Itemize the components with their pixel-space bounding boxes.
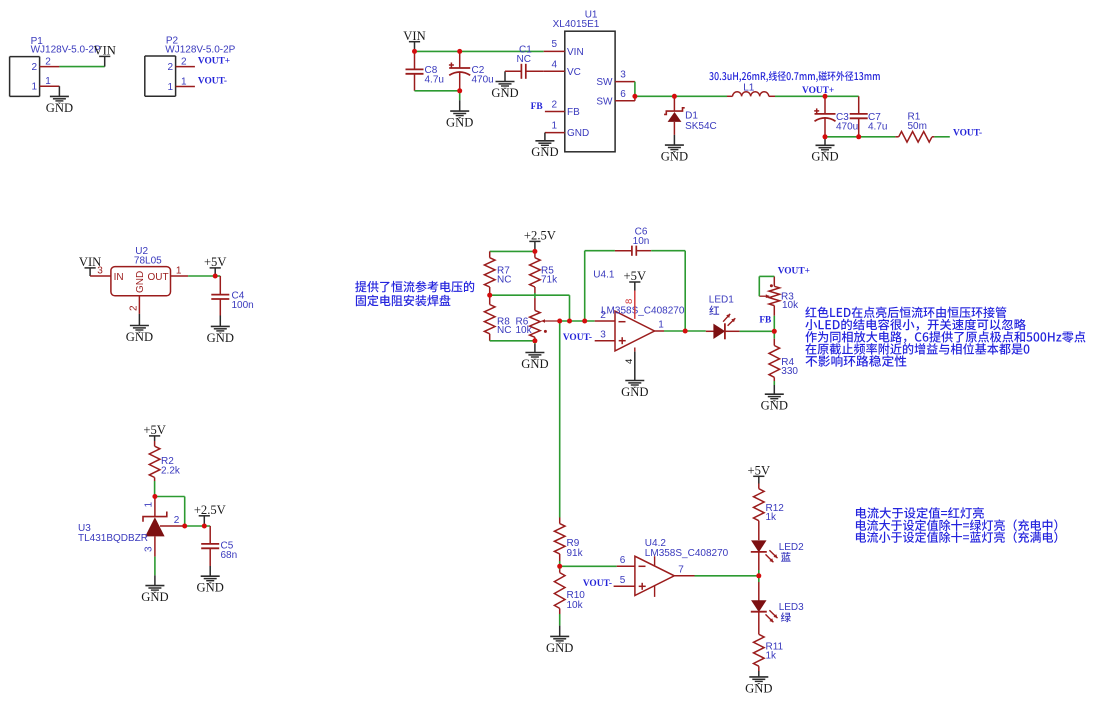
svg-text:GND: GND: [197, 581, 224, 595]
U1 pin 3 SW: [615, 81, 635, 83]
resistor R4: [769, 331, 780, 394]
wire U4.1 output: [664, 330, 706, 332]
svg-text:SW: SW: [596, 96, 613, 107]
wire C3 bottom to ground: [824, 137, 826, 146]
junction R9 R10 node: [557, 564, 562, 569]
svg-text:+2.5V: +2.5V: [524, 229, 556, 243]
svg-text:L1: L1: [743, 83, 755, 94]
annotation pads note: [355, 281, 474, 293]
ground below divider: [521, 353, 548, 371]
U4.2 pin 7 output: [674, 575, 694, 577]
svg-text:TL431BQDBZR: TL431BQDBZR: [78, 533, 148, 544]
svg-text:IN: IN: [114, 272, 124, 283]
svg-text:GND: GND: [761, 399, 788, 413]
ground below R10: [546, 636, 573, 654]
LED LED2: [751, 541, 778, 570]
wire C8 bottom to C2 bottom: [415, 90, 460, 92]
P1 pin 2: [40, 66, 60, 68]
ground below U3: [141, 586, 168, 604]
ground below C4: [207, 326, 234, 344]
wire LED1 to FB node: [740, 330, 775, 332]
wire U3 pin2 to +2.5V: [185, 525, 211, 527]
resistor R5: [530, 251, 541, 293]
connector P1: [10, 57, 40, 97]
svg-text:GND: GND: [811, 150, 838, 164]
svg-text:U4.1: U4.1: [593, 269, 615, 280]
ground at U1 pin 1: [531, 141, 558, 159]
LED LED1: [706, 314, 740, 339]
potentiometer R6: [530, 298, 560, 341]
wire inverting to R9: [559, 321, 561, 518]
svg-text:100n: 100n: [232, 300, 254, 311]
power flag +5V at R12: [748, 464, 771, 484]
svg-text:+5V: +5V: [624, 269, 647, 283]
svg-text:1: 1: [181, 76, 187, 87]
svg-text:XL4015E1: XL4015E1: [553, 19, 600, 30]
power flag +2.5V at divider: [524, 229, 556, 252]
svg-text:VOUT-: VOUT-: [583, 579, 612, 589]
svg-text:4.7u: 4.7u: [868, 121, 887, 132]
svg-text:LED1: LED1: [709, 295, 734, 306]
resistor R2: [149, 441, 160, 481]
junction inverting at mid: [567, 319, 572, 324]
capacitor C5: [201, 526, 219, 576]
resistor R9: [554, 518, 565, 562]
wire R3 top to wiper: [759, 276, 774, 296]
svg-text:GND: GND: [126, 330, 153, 344]
svg-text:LED3: LED3: [779, 602, 804, 613]
svg-text:GND: GND: [135, 271, 146, 293]
svg-text:4: 4: [624, 359, 635, 364]
junction C2 bottom: [457, 88, 462, 93]
op-amp U4.1: [615, 311, 655, 351]
ground below D1: [661, 145, 688, 163]
P2 pin 1: [176, 86, 195, 88]
power flag +5V at R2: [143, 423, 166, 441]
capacitor C6: [615, 246, 651, 256]
op-amp U4.2: [635, 556, 674, 597]
svg-text:3: 3: [144, 546, 155, 552]
svg-text:GND: GND: [567, 128, 589, 139]
wire U3 cathode loop: [155, 497, 185, 527]
junction C3 bottom: [823, 134, 828, 139]
junction divider mid: [487, 293, 492, 298]
svg-text:6: 6: [620, 555, 626, 566]
wire P1 pin1 to ground: [58, 86, 60, 96]
ground at P1 pin1: [46, 96, 73, 114]
U1 pin 6 SW: [615, 96, 635, 101]
wire L1 to VOUT+ node: [775, 95, 825, 97]
svg-text:VC: VC: [567, 67, 581, 78]
capacitor C1: [505, 64, 544, 79]
annotation LED meaning note: [856, 507, 984, 519]
junction divider bottom: [532, 338, 537, 343]
svg-text:2: 2: [600, 310, 606, 321]
svg-text:GND: GND: [531, 145, 558, 159]
svg-text:2: 2: [174, 515, 180, 526]
svg-text:GND: GND: [46, 101, 73, 115]
wire +5V to C4: [215, 275, 220, 277]
power flag +2.5V at U3: [194, 503, 226, 526]
svg-text:VIN: VIN: [94, 44, 116, 58]
junction VIN rail at C8: [412, 49, 417, 54]
resistor R10: [554, 570, 565, 637]
svg-text:2: 2: [181, 56, 187, 67]
svg-text:1: 1: [658, 320, 664, 331]
svg-text:NC: NC: [497, 325, 511, 336]
svg-text:7: 7: [678, 564, 684, 575]
junction +2.5V divider: [532, 249, 537, 254]
svg-text:VOUT-: VOUT-: [953, 129, 982, 139]
junction inverting at C6: [582, 319, 587, 324]
svg-text:GND: GND: [446, 116, 473, 130]
svg-text:1k: 1k: [766, 512, 778, 523]
annotation current-loop note: [805, 307, 1006, 319]
svg-text:VOUT+: VOUT+: [802, 86, 834, 96]
svg-text:+5V: +5V: [143, 423, 166, 437]
svg-text:LM358S_C408270: LM358S_C408270: [645, 548, 729, 559]
junction R2 U3 node: [152, 494, 157, 499]
resistor R1: [895, 132, 934, 143]
svg-text:3: 3: [620, 70, 626, 81]
wire U4.2 output to LEDs: [695, 575, 759, 577]
wire U2 out to +5V: [188, 275, 215, 277]
power flag VIN at P1: [94, 44, 116, 67]
svg-text:1: 1: [176, 265, 182, 276]
svg-text:NC: NC: [517, 54, 531, 65]
junction U3 pin2: [182, 524, 187, 529]
svg-text:LED2: LED2: [779, 542, 804, 553]
wire VOUT+ node to C7: [825, 95, 859, 97]
svg-text:VOUT+: VOUT+: [778, 266, 810, 276]
capacitor C4: [211, 276, 229, 326]
svg-text:10k: 10k: [782, 300, 799, 311]
wire R9 node to U4.2: [560, 565, 617, 567]
ground below R11: [745, 677, 772, 695]
wire SW3 down to SW node: [634, 82, 636, 97]
svg-text:VOUT+: VOUT+: [198, 56, 230, 66]
junction inverting at R9: [557, 319, 562, 324]
power flag VIN at U2: [79, 255, 101, 276]
wire mid to inverting node: [569, 295, 571, 321]
svg-text:+5V: +5V: [748, 464, 771, 478]
U1 pin 1 GND: [545, 133, 565, 141]
junction U4.1 output: [683, 329, 688, 334]
wire inverting node: [560, 320, 595, 322]
wire R3 bottom to FB: [773, 316, 775, 332]
svg-text:FB: FB: [531, 102, 543, 112]
svg-text:1k: 1k: [766, 651, 778, 662]
svg-text:OUT: OUT: [148, 272, 169, 283]
svg-text:330: 330: [781, 366, 798, 377]
svg-text:WJ128V-5.0-2P: WJ128V-5.0-2P: [31, 45, 101, 56]
svg-text:NC: NC: [497, 275, 511, 286]
IC U1 body: [565, 31, 615, 152]
regulator U2 body: [111, 267, 171, 296]
svg-text:3: 3: [600, 330, 606, 341]
wire R2 to U3: [154, 481, 156, 497]
junction +2.5V at C5: [202, 524, 207, 529]
svg-text:2: 2: [31, 62, 37, 73]
svg-text:SW: SW: [596, 77, 613, 88]
label LED2 color blue: [781, 552, 791, 562]
svg-text:5: 5: [620, 575, 626, 586]
svg-text:470u: 470u: [836, 121, 858, 132]
U1 pin 2 FB: [545, 111, 565, 113]
svg-text:1: 1: [552, 121, 558, 132]
svg-text:6: 6: [620, 89, 626, 100]
U2 pin 2 GND: [138, 296, 140, 326]
svg-text:10k: 10k: [516, 325, 533, 336]
svg-text:10n: 10n: [633, 236, 650, 247]
svg-text:8: 8: [624, 299, 635, 304]
U4.1 pin 8 power: [634, 291, 636, 319]
svg-text:10k: 10k: [567, 600, 584, 611]
wire divider bottom: [490, 340, 535, 342]
wire C2 bottom to ground: [459, 91, 461, 111]
wire C6 right leg: [651, 251, 685, 331]
svg-text:VIN: VIN: [567, 47, 584, 58]
P2 pin 2: [176, 66, 195, 68]
svg-text:91k: 91k: [567, 548, 584, 559]
power flag +5V at U4.1: [624, 269, 647, 290]
svg-text:2: 2: [167, 62, 173, 73]
svg-text:GND: GND: [207, 331, 234, 345]
ground below C3: [811, 145, 838, 163]
U4.1 pin 4 power: [634, 348, 636, 381]
junction at D1: [672, 94, 677, 99]
wire C6 left leg: [585, 251, 615, 321]
capacitor C2: [449, 51, 470, 90]
U4.1 pin 1 output: [655, 330, 665, 332]
junction VIN rail at C2: [457, 49, 462, 54]
diode D1 SK54C: [664, 96, 685, 145]
svg-text:1: 1: [31, 82, 37, 93]
capacitor C8: [406, 51, 424, 90]
svg-text:SK54C: SK54C: [685, 121, 717, 132]
shunt reference U3 TL431: [143, 497, 185, 557]
junction VOUT+ at C3: [823, 94, 828, 99]
LED LED3: [751, 582, 778, 622]
svg-text:1: 1: [45, 76, 51, 87]
svg-text:4: 4: [552, 59, 558, 70]
svg-text:WJ128V-5.0-2P: WJ128V-5.0-2P: [165, 45, 235, 56]
label L1 spec annotation: [709, 71, 880, 82]
svg-text:GND: GND: [745, 681, 772, 695]
junction LED node: [756, 573, 761, 578]
svg-text:FB: FB: [567, 107, 580, 118]
wire P1 pin2 to VIN: [59, 66, 104, 68]
wire divider top: [490, 250, 535, 252]
svg-text:5: 5: [552, 39, 558, 50]
ground below C2: [446, 111, 473, 129]
U2 pin 3: [90, 275, 111, 277]
ground below R4: [761, 394, 788, 412]
svg-text:1: 1: [144, 502, 155, 508]
ground at C1: [491, 71, 518, 100]
ground below U4.1: [621, 381, 648, 399]
resistor R12: [754, 484, 765, 541]
svg-text:2: 2: [552, 100, 558, 111]
capacitor C3: [814, 96, 835, 137]
inductor L1: [727, 92, 775, 97]
wire divider mid: [490, 293, 570, 298]
label LED3 color green: [781, 612, 791, 622]
U4.2 pin 5 input: [614, 585, 635, 587]
ground below C5: [197, 576, 224, 594]
svg-text:GND: GND: [491, 86, 518, 100]
svg-text:2: 2: [128, 305, 139, 311]
U4.1 pin 3 input: [595, 340, 615, 342]
wire U3 pin3 to ground: [154, 557, 156, 586]
svg-text:+2.5V: +2.5V: [194, 503, 226, 517]
svg-text:VIN: VIN: [403, 29, 425, 43]
svg-text:71k: 71k: [541, 275, 558, 286]
wire VIN rail: [415, 50, 544, 52]
svg-text:50m: 50m: [908, 121, 927, 132]
svg-text:3: 3: [97, 265, 103, 276]
U1 pin 5 VIN: [544, 50, 565, 52]
wire R1 to VOUT-: [934, 136, 949, 138]
P1 pin 1: [40, 85, 60, 87]
svg-text:FB: FB: [759, 316, 771, 326]
svg-text:VOUT-: VOUT-: [563, 333, 592, 343]
potentiometer R3: [759, 276, 779, 315]
wire LED2 to node: [758, 570, 760, 582]
svg-text:1: 1: [167, 82, 173, 93]
junction C7 bottom: [856, 134, 861, 139]
ground below U2: [126, 326, 153, 344]
svg-text:GND: GND: [521, 357, 548, 371]
wire SW node to L1: [635, 95, 727, 97]
svg-text:GND: GND: [661, 150, 688, 164]
junction FB node: [772, 329, 777, 334]
svg-text:2: 2: [45, 56, 51, 67]
U4.1 pin 2 input: [595, 320, 615, 322]
svg-text:2.2k: 2.2k: [161, 466, 181, 477]
svg-text:GND: GND: [141, 590, 168, 604]
svg-text:+5V: +5V: [204, 255, 227, 269]
svg-text:LM358S_C408270: LM358S_C408270: [601, 305, 685, 316]
power flag VIN main: [403, 29, 425, 52]
wire R9 node: [559, 561, 561, 570]
svg-text:78L05: 78L05: [134, 255, 162, 266]
wire output bottom rail: [825, 136, 895, 138]
svg-text:GND: GND: [621, 385, 648, 399]
junction SW node: [632, 94, 637, 99]
junction +5V at C4: [213, 274, 218, 279]
resistor R7: [484, 251, 495, 295]
svg-text:470u: 470u: [472, 74, 494, 85]
resistor R8: [484, 295, 495, 341]
wire divider bottom to ground: [534, 341, 536, 353]
power flag +5V at U2: [204, 255, 227, 276]
svg-text:4.7u: 4.7u: [425, 74, 444, 85]
resistor R11: [754, 612, 765, 677]
svg-text:GND: GND: [546, 641, 573, 655]
label LED1 color red: [709, 306, 719, 315]
U2 pin 1: [171, 275, 189, 277]
U1 pin 4 VC: [544, 70, 565, 72]
capacitor C7: [850, 96, 868, 137]
U4.2 pin 6 input: [617, 565, 635, 567]
connector P2: [145, 56, 176, 96]
svg-text:VOUT-: VOUT-: [198, 76, 227, 86]
svg-text:68n: 68n: [221, 550, 238, 561]
